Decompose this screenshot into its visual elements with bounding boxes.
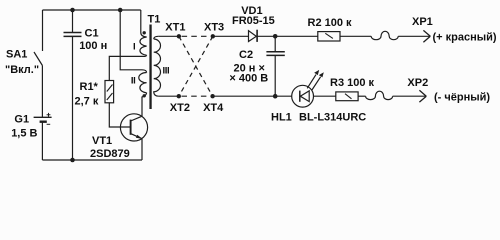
wire bottom rail [42,159,142,161]
winding I [140,37,147,55]
wire diode to R2 [257,35,318,37]
svg-text:FR05-15: FR05-15 [232,15,275,27]
wire dashed XT1-XT4 [179,36,213,96]
svg-text:"Вкл.": "Вкл." [5,64,39,76]
transformer core [149,25,151,110]
svg-text:C2: C2 [239,49,253,61]
winding II [139,73,147,93]
node XT2 [177,94,181,98]
plug XP1 arrow [423,30,430,42]
svg-text:VT1: VT1 [92,135,112,147]
transistor VT1 [120,97,147,160]
wire top rail [43,9,141,11]
svg-text:× 400 В: × 400 В [229,73,268,85]
wire XT3 to diode [213,35,249,37]
wire dashed XT1-XT3 [182,35,211,37]
svg-text:2,7 к: 2,7 к [75,95,99,107]
node XT3 [211,34,215,38]
svg-text:XT2: XT2 [170,102,190,114]
node bottom junction [70,158,75,163]
resistor R1 [105,81,114,103]
phase dot winding II [143,94,146,97]
wire winding III top to XT1 [158,35,179,37]
svg-text:SA1: SA1 [6,48,27,60]
wire R3 to squiggle [358,95,366,97]
svg-text:HL1: HL1 [271,111,292,123]
plug XP2 arrow [419,90,426,102]
capacitor C2 [266,36,284,96]
wire dashed XT2-XT4 [182,95,211,97]
node winding II feed junction [118,8,123,13]
svg-text:(+ красный): (+ красный) [433,31,497,43]
wire R1 to base [109,103,130,127]
svg-text:XP1: XP1 [412,16,433,28]
svg-text:100 н: 100 н [79,40,107,52]
svg-text:XP2: XP2 [407,77,428,89]
svg-text:(- чёрный): (- чёрный) [434,91,490,103]
wire winding III bottom to XT2 [159,95,179,97]
wire R2 to squiggle [340,35,371,37]
node C1 top junction [70,8,75,13]
wire LED to R3 [314,95,336,97]
winding III [154,36,161,96]
capacitor C1 [64,10,82,160]
svg-text:1,5 В: 1,5 В [11,127,37,139]
wire squiggle to XP1 arrow [398,35,430,37]
node C2 bottom junction [273,94,278,99]
svg-text:R2 100 к: R2 100 к [308,17,353,29]
wire left rail upper (to switch) [42,10,44,51]
node VD1-C2 junction [273,34,278,39]
battery G1 [34,113,52,124]
wire dashed XT3-XT2 [179,36,213,96]
svg-text:BL-L314URC: BL-L314URC [299,111,366,123]
flexible-lead squiggle top [371,31,398,39]
svg-text:XT4: XT4 [203,102,224,114]
flexible-lead squiggle bottom [366,91,393,99]
winding II exit to collector [142,93,147,97]
svg-text:R3 100 к: R3 100 к [330,77,375,89]
svg-text:R1*: R1* [80,81,99,93]
phase dot winding I [143,31,146,34]
svg-text:I: I [133,41,135,52]
wire left rail lower [41,122,43,160]
node XT1 [177,34,181,38]
wire squiggle to XP2 arrow [393,95,427,97]
LED HL1 [292,70,324,107]
node XT4 [210,94,214,98]
wire winding II feed [120,10,146,73]
wire XT4 to LED [213,95,292,97]
svg-text:XT3: XT3 [204,21,224,33]
svg-text:T1: T1 [148,13,161,25]
svg-text:2SD879: 2SD879 [90,148,130,160]
svg-text:G1: G1 [14,114,29,126]
resistor R3 [336,92,358,101]
diode VD1 [249,30,258,42]
resistor R2 [318,32,340,41]
winding I lead from top rail [141,10,147,37]
svg-text:XT1: XT1 [165,21,185,33]
svg-text:III: III [163,65,170,76]
switch SA1 [34,52,42,117]
svg-text:II: II [131,75,135,86]
wire winding I to R1 [109,55,146,80]
svg-text:C1: C1 [85,28,99,40]
